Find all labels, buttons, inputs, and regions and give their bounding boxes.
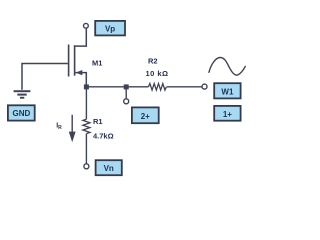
sine wave: [209, 57, 245, 75]
terminal circle Vp: [84, 23, 89, 28]
wire node A to R2: [86, 86, 148, 88]
svg-text:Vn: Vn: [104, 164, 114, 173]
svg-text:R2: R2: [148, 57, 158, 66]
terminal circle W1: [202, 84, 207, 89]
svg-text:4.7kΩ: 4.7kΩ: [93, 132, 114, 141]
svg-text:R1: R1: [93, 117, 103, 126]
svg-text:2+: 2+: [141, 112, 150, 121]
wire node B to scope tap: [125, 87, 127, 99]
resistor R1: [83, 119, 90, 133]
current arrow IR: [69, 115, 76, 142]
W1 terminal box: [214, 83, 240, 98]
node B junction: [124, 84, 129, 89]
svg-text:10 kΩ: 10 kΩ: [145, 69, 168, 78]
wire gate-to-ground: [22, 64, 68, 90]
wire R2 to W1: [167, 86, 202, 88]
svg-text:W1: W1: [221, 87, 234, 96]
Vn terminal box: [96, 160, 122, 175]
wire node A to R1: [85, 89, 87, 119]
terminal circle Vn: [84, 164, 89, 169]
terminal circle 2+: [124, 99, 129, 104]
transistor M1: [68, 28, 87, 85]
GND terminal box: [8, 105, 35, 120]
wire R1 to Vn: [85, 134, 87, 164]
1+ scope box: [214, 106, 240, 121]
ground: [14, 90, 31, 99]
svg-text:M1: M1: [92, 59, 102, 68]
svg-text:Vp: Vp: [105, 25, 115, 34]
svg-text:GND: GND: [13, 109, 31, 118]
svg-text:1+: 1+: [223, 110, 232, 119]
node A junction: [84, 84, 89, 89]
Vp terminal box: [95, 21, 125, 36]
resistor R2: [148, 84, 166, 91]
2+ scope box: [132, 107, 159, 123]
